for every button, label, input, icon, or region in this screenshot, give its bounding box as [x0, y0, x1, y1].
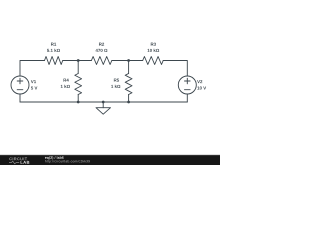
value label R3 10 kOhm [148, 49, 160, 52]
wire node A to R4 [77, 61, 79, 74]
footer bar [0, 155, 220, 165]
label V1 [31, 80, 36, 83]
logo word CIRCUIT [9, 157, 27, 160]
value label R4 1 kOhm [61, 85, 70, 88]
wire V1 to bottom rail [19, 94, 21, 102]
V1 minus sign [17, 89, 23, 91]
wire R5 to bottom rail [128, 95, 130, 103]
footer url text [45, 160, 90, 163]
label V2 [197, 80, 202, 83]
resistor R4 [75, 74, 82, 95]
value label R2 470 Ohm [96, 49, 108, 52]
node B junction dot [127, 59, 130, 62]
wire top rail right segment [163, 61, 187, 77]
junction dot ground node [102, 101, 105, 104]
wire R1 to node A [63, 60, 92, 62]
wire R4 to bottom rail [77, 95, 79, 103]
V2 minus sign [185, 89, 191, 91]
voltage source V2 circle [178, 76, 196, 94]
wire R2 to node B [112, 60, 143, 62]
wire node B to R5 [128, 61, 130, 74]
label R4 [63, 79, 68, 82]
wire V2 to bottom rail [186, 94, 188, 102]
label R3 [151, 43, 156, 46]
resistor R2 [91, 57, 111, 65]
ground triangle [96, 108, 111, 115]
V1 plus sign [19, 78, 21, 84]
resistor R1 [45, 57, 63, 65]
ground stub [102, 102, 104, 108]
footer title text [45, 156, 64, 159]
resistor R3 [143, 57, 164, 65]
value label R1 5.1 kOhm [47, 49, 60, 52]
label R2 [99, 43, 104, 46]
wire top rail left segment [20, 61, 45, 77]
label R1 [51, 43, 56, 46]
logo wave glyph [9, 161, 19, 164]
voltage source V1 circle [11, 76, 29, 94]
wire bottom rail [20, 101, 187, 103]
value label V2 10 V [197, 86, 206, 89]
value label V1 5 V [31, 86, 37, 89]
value label R5 1 kOhm [111, 85, 120, 88]
logo word LAB [21, 161, 30, 164]
node A junction dot [77, 59, 80, 62]
junction dot R4 bottom [77, 101, 80, 104]
junction dot R5 bottom [127, 101, 130, 104]
label R5 [114, 79, 119, 82]
resistor R5 [125, 74, 132, 95]
V2 plus sign [186, 78, 188, 84]
